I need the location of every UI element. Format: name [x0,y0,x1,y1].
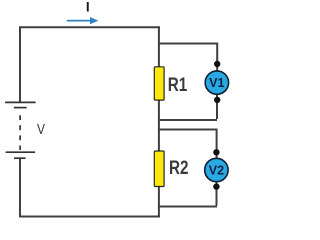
svg-text:I: I [86,0,90,15]
svg-text:R2: R2 [169,158,189,179]
svg-text:V: V [37,121,45,138]
svg-text:V2: V2 [209,164,224,178]
svg-text:V1: V1 [209,76,224,90]
svg-text:R1: R1 [168,75,188,96]
